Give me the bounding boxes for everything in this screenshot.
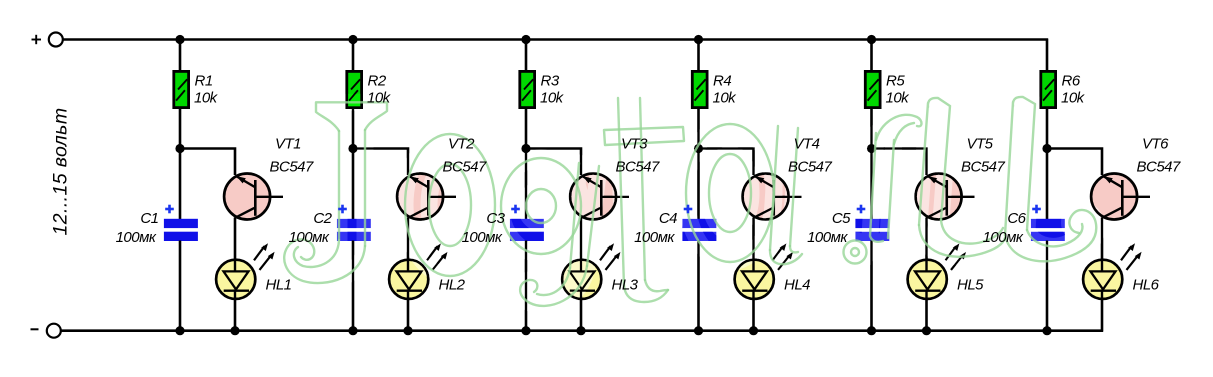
wire: HL2 to - rail [407, 300, 410, 331]
junction dot: + rail / R3 [521, 35, 530, 44]
label - (negative) [31, 328, 39, 330]
transistor VT5 (BC547, NPN) [916, 174, 975, 220]
svg-text:100мк: 100мк [983, 229, 1024, 246]
svg-text:C4: C4 [659, 210, 677, 227]
label HL6 [1133, 276, 1160, 293]
polarity mark + of C5 [857, 205, 866, 214]
label VT6 [1142, 136, 1169, 153]
junction dot: - rail / HL4 [749, 326, 758, 335]
svg-text:10k: 10k [540, 89, 565, 106]
polarity mark + of C2 [338, 205, 347, 214]
svg-text:100мк: 100мк [289, 229, 330, 246]
label C6 [1007, 210, 1026, 227]
svg-text:HL5: HL5 [957, 276, 984, 293]
svg-text:BC547: BC547 [616, 158, 661, 175]
svg-text:C2: C2 [313, 210, 332, 227]
positive supply terminal [49, 33, 63, 47]
capacitor C4 (electrolytic 100мк) [682, 219, 716, 241]
svg-text:C6: C6 [1007, 210, 1026, 227]
svg-text:R5: R5 [886, 73, 905, 90]
wire: + rail to R6 [1046, 39, 1049, 71]
resistor R6 (10k) [1041, 71, 1056, 107]
LED HL1 [216, 243, 275, 300]
wire: + rail to R1 [179, 39, 182, 71]
wire: node 4 to C4 [697, 149, 700, 221]
junction dot: - rail / HL1 [230, 326, 239, 335]
label 12...15 вольт (supply voltage) [50, 108, 72, 236]
wire: HL4 to - rail [752, 300, 755, 331]
wire: node 2 to VT2 emitter [353, 149, 408, 176]
polarity mark + of C6 [1032, 205, 1041, 214]
junction dot: + rail / R4 [694, 35, 703, 44]
wire: C4 to - rail [697, 241, 700, 331]
capacitor C1 (electrolytic 100мк) [164, 219, 198, 241]
label 100мк (C6 value) [983, 229, 1024, 246]
svg-text:VT5: VT5 [967, 136, 994, 153]
svg-text:BC547: BC547 [1137, 158, 1182, 175]
label VT2 [448, 136, 475, 153]
svg-text:HL4: HL4 [784, 276, 810, 293]
svg-text:VT4: VT4 [794, 136, 820, 153]
label HL2 [439, 276, 466, 293]
label R2 [368, 73, 387, 90]
label C3 [486, 210, 505, 227]
capacitor C3 (electrolytic 100мк) [510, 219, 544, 241]
wire: HL5 to - rail [925, 300, 928, 331]
label 10k (R6 value) [1061, 89, 1086, 106]
label BC547 (VT6 type) [1137, 158, 1182, 175]
LED HL5 [908, 243, 966, 300]
wire: HL1 to - rail [234, 300, 237, 331]
svg-text:BC547: BC547 [961, 158, 1006, 175]
label 100мк (C2 value) [289, 229, 330, 246]
wire: node 1 to C1 [179, 149, 182, 221]
capacitor C5 (electrolytic 100мк) [855, 219, 889, 241]
label VT3 [621, 136, 648, 153]
svg-text:C5: C5 [832, 210, 851, 227]
svg-text:100мк: 100мк [634, 229, 675, 246]
svg-text:R6: R6 [1062, 73, 1081, 90]
svg-text:VT2: VT2 [448, 136, 475, 153]
label R3 [541, 73, 560, 90]
junction dot: + rail / R2 [348, 35, 357, 44]
svg-text:VT3: VT3 [621, 136, 648, 153]
svg-text:12...15 вольт: 12...15 вольт [50, 108, 72, 236]
wire: VT1 collector to HL1 [234, 218, 237, 262]
svg-text:VT6: VT6 [1142, 136, 1169, 153]
svg-text:10k: 10k [713, 89, 738, 106]
svg-text:100мк: 100мк [462, 229, 503, 246]
svg-text:R1: R1 [195, 73, 213, 90]
resistor R1 (10k) [174, 71, 189, 107]
wire: node 1 to VT1 emitter [180, 149, 235, 176]
wire: R1 to base node 1 [179, 108, 182, 149]
wire: node 3 to C3 [525, 149, 528, 221]
transistor VT6 (BC547, NPN) [1091, 174, 1150, 220]
resistor R3 (10k) [520, 71, 535, 107]
wire: node 2 to C2 [352, 149, 355, 221]
node 2 junction dot [348, 144, 357, 153]
label 100мк (C5 value) [807, 229, 848, 246]
top supply rail wire [63, 38, 1048, 41]
label VT1 [275, 136, 301, 153]
svg-text:10k: 10k [194, 89, 219, 106]
node 5 junction dot [867, 144, 876, 153]
node 3 junction dot [521, 144, 530, 153]
wire: + rail to R3 [525, 39, 528, 71]
wire: + rail to R2 [352, 39, 355, 71]
wire: R2 to base node 2 [352, 108, 355, 149]
transistor VT3 (BC547, NPN) [570, 174, 629, 220]
wire: HL3 to - rail [580, 300, 583, 331]
label VT4 [794, 136, 820, 153]
svg-text:VT1: VT1 [275, 136, 301, 153]
wire: R5 to base node 5 [870, 108, 873, 149]
label R4 [713, 73, 731, 90]
label 10k (R1 value) [194, 89, 219, 106]
svg-text:10k: 10k [367, 89, 392, 106]
label + (positive) [32, 35, 42, 44]
transistor VT1 (BC547, NPN) [224, 174, 283, 220]
svg-text:BC547: BC547 [270, 158, 315, 175]
label 10k (R2 value) [367, 89, 392, 106]
label HL5 [957, 276, 984, 293]
label R6 [1062, 73, 1081, 90]
wire: C5 to - rail [870, 241, 873, 331]
polarity mark + of C4 [684, 205, 693, 214]
label BC547 (VT3 type) [616, 158, 661, 175]
LED HL2 [389, 243, 448, 300]
wire: HL6 to - rail [1101, 300, 1104, 332]
label HL4 [784, 276, 810, 293]
capacitor C6 (electrolytic 100мк) [1031, 219, 1065, 241]
wire: + rail to R5 [870, 39, 873, 71]
label BC547 (VT2 type) [443, 158, 488, 175]
wire: C1 to - rail [179, 241, 182, 331]
LED HL6 [1083, 243, 1142, 300]
wire: node 3 to VT3 emitter [526, 149, 581, 176]
wire: node 6 to C6 [1046, 149, 1049, 221]
wire: C3 to - rail [525, 241, 528, 331]
bottom supply rail wire [61, 329, 1103, 332]
svg-text:BC547: BC547 [788, 158, 833, 175]
node 4 junction dot [694, 144, 703, 153]
LED HL4 [735, 243, 793, 300]
junction dot: - rail / C1 [175, 326, 184, 335]
wire: C6 to - rail [1046, 241, 1049, 332]
LED HL3 [562, 243, 620, 300]
svg-text:HL1: HL1 [266, 276, 292, 293]
label BC547 (VT1 type) [270, 158, 315, 175]
label HL1 [266, 276, 292, 293]
svg-text:100мк: 100мк [807, 229, 848, 246]
label 10k (R4 value) [713, 89, 738, 106]
wire: C2 to - rail [352, 241, 355, 331]
junction dot: - rail / HL5 [922, 326, 931, 335]
wire: VT3 collector to HL3 [580, 218, 583, 262]
svg-text:HL6: HL6 [1133, 276, 1160, 293]
svg-text:C3: C3 [486, 210, 505, 227]
node 1 junction dot [175, 144, 184, 153]
wire: node 5 to C5 [870, 149, 873, 221]
svg-text:10k: 10k [886, 89, 911, 106]
label R1 [195, 73, 213, 90]
junction dot: - rail / HL2 [403, 326, 412, 335]
svg-text:R3: R3 [541, 73, 560, 90]
svg-text:HL2: HL2 [439, 276, 466, 293]
wire: node 5 to VT5 emitter [872, 149, 927, 176]
transistor VT2 (BC547, NPN) [397, 174, 456, 220]
label BC547 (VT4 type) [788, 158, 833, 175]
wire: R4 to base node 4 [697, 108, 700, 149]
watermark Joyta.ru [284, 97, 1096, 306]
junction dot: - rail / C5 [867, 326, 876, 335]
label C4 [659, 210, 677, 227]
label R5 [886, 73, 905, 90]
label C5 [832, 210, 851, 227]
label 10k (R3 value) [540, 89, 565, 106]
resistor R2 (10k) [347, 71, 362, 107]
svg-text:R4: R4 [713, 73, 731, 90]
label HL3 [612, 276, 639, 293]
wire: + rail to R4 [697, 39, 700, 71]
capacitor C2 (electrolytic 100мк) [337, 219, 371, 241]
junction dot: + rail / R1 [175, 35, 184, 44]
wire: VT2 collector to HL2 [407, 218, 410, 262]
svg-text:10k: 10k [1061, 89, 1086, 106]
wire: R3 to base node 3 [525, 108, 528, 149]
wire: VT4 collector to HL4 [752, 218, 755, 262]
wire: R6 to base node 6 [1046, 108, 1049, 149]
svg-text:BC547: BC547 [443, 158, 488, 175]
label C1 [140, 210, 158, 227]
svg-text:C1: C1 [140, 210, 158, 227]
junction dot: - rail / C6 [1042, 326, 1051, 335]
resistor R5 (10k) [865, 71, 880, 107]
junction dot: + rail / R5 [867, 35, 876, 44]
label VT5 [967, 136, 994, 153]
label 100мк (C1 value) [116, 229, 157, 246]
resistor R4 (10k) [692, 71, 707, 107]
label 10k (R5 value) [886, 89, 911, 106]
junction dot: - rail / C2 [348, 326, 357, 335]
junction dot: - rail / HL3 [576, 326, 585, 335]
svg-text:100мк: 100мк [116, 229, 157, 246]
wire: node 4 to VT4 emitter [699, 149, 754, 176]
wire: VT6 collector to HL6 [1101, 218, 1104, 262]
label 100мк (C3 value) [462, 229, 503, 246]
transistor VT4 (BC547, NPN) [743, 174, 802, 220]
wire: node 6 to VT6 emitter [1047, 149, 1102, 176]
polarity mark + of C1 [165, 205, 174, 214]
polarity mark + of C3 [511, 205, 520, 214]
label 100мк (C4 value) [634, 229, 675, 246]
node 6 junction dot [1042, 144, 1051, 153]
junction dot: - rail / C4 [694, 326, 703, 335]
negative supply terminal [47, 324, 61, 338]
label BC547 (VT5 type) [961, 158, 1006, 175]
svg-text:HL3: HL3 [612, 276, 639, 293]
svg-text:R2: R2 [368, 73, 387, 90]
wire: VT5 collector to HL5 [925, 218, 928, 262]
label C2 [313, 210, 332, 227]
junction dot: - rail / C3 [521, 326, 530, 335]
